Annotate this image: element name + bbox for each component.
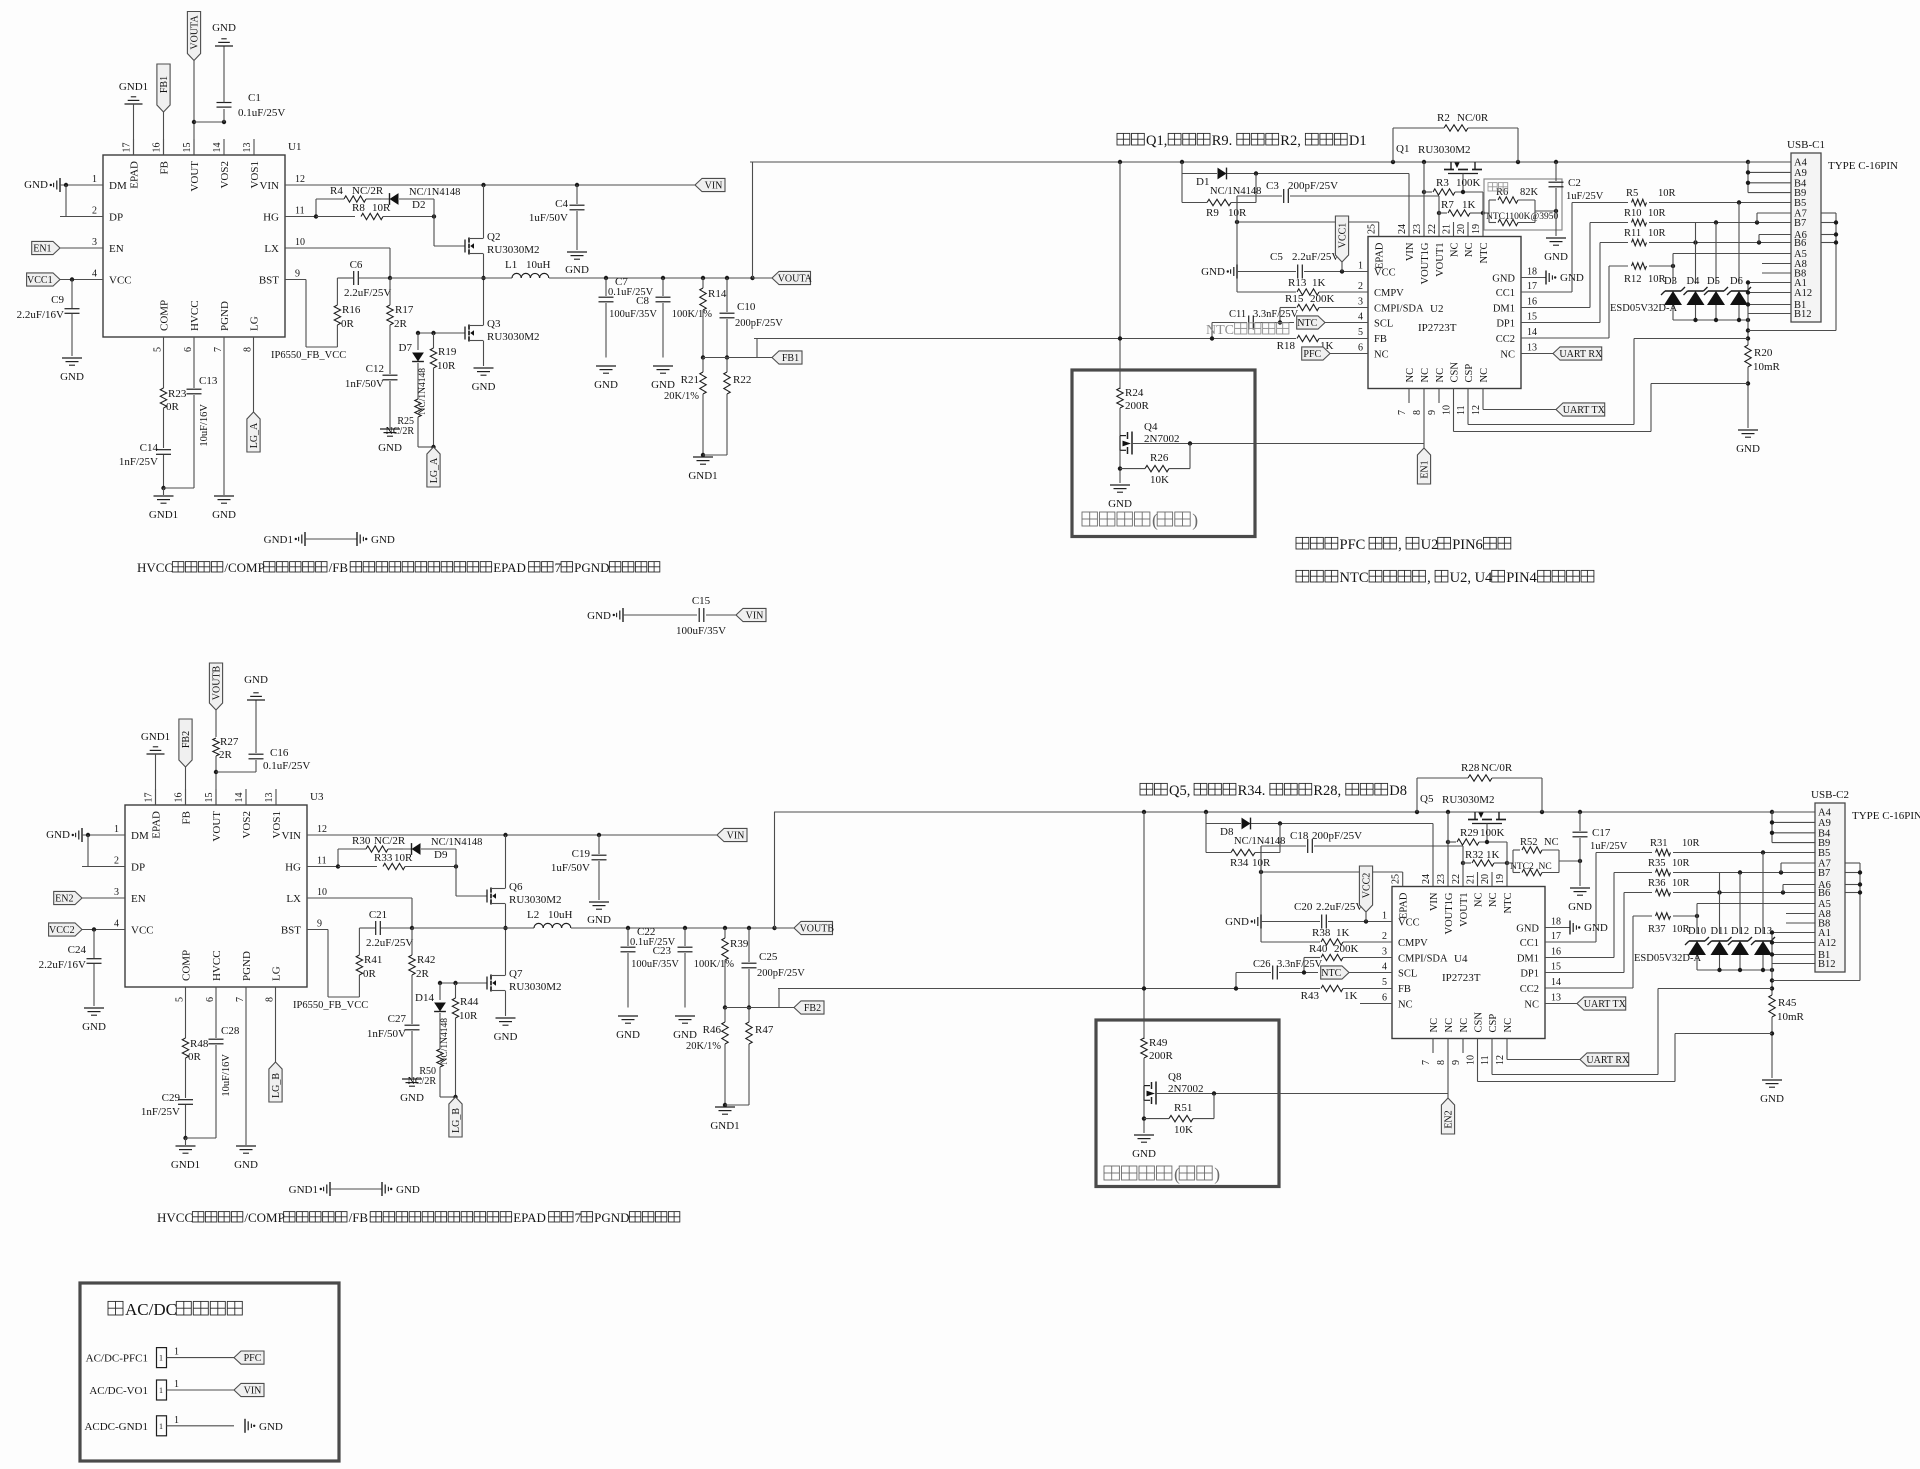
svg-text:C4: C4 [555, 198, 568, 210]
svg-text:U2, U4: U2, U4 [1450, 570, 1493, 586]
svg-text:20K/1%: 20K/1% [686, 1041, 721, 1052]
svg-text:5: 5 [175, 997, 186, 1002]
signal ground [244, 1419, 246, 1433]
svg-text:RU3030M2: RU3030M2 [487, 331, 540, 343]
capacitor C3 [1237, 195, 1282, 197]
svg-text:3: 3 [92, 237, 97, 248]
U1 pin 7 PGND stub [223, 337, 225, 352]
svg-text:2.2uF/25V: 2.2uF/25V [1316, 901, 1363, 913]
svg-text:NC: NC [1435, 368, 1446, 383]
svg-text:C23: C23 [653, 945, 672, 957]
svg-text:LG_A: LG_A [249, 422, 260, 448]
svg-text:GND: GND [396, 1184, 420, 1196]
svg-text:HVCC: HVCC [157, 1210, 193, 1225]
EPAD tie wire [1237, 221, 1379, 223]
svg-text:4: 4 [1358, 312, 1363, 323]
svg-text:R28: R28 [1461, 762, 1480, 774]
VBUS pin group wires [1772, 811, 1815, 813]
svg-text:2.2uF/16V: 2.2uF/16V [17, 309, 64, 321]
resistor R11 [1632, 239, 1647, 245]
svg-text:LX: LX [286, 893, 301, 905]
svg-text:PGND: PGND [241, 951, 253, 981]
svg-text:CSN: CSN [1474, 1012, 1485, 1033]
svg-text:20: 20 [1456, 224, 1467, 234]
capacitor C12 [383, 374, 398, 376]
svg-text:1: 1 [1358, 261, 1363, 272]
thermistor NTC2 NC [1513, 872, 1520, 874]
svg-text:/FB: /FB [329, 560, 349, 575]
svg-text:C28: C28 [221, 1025, 240, 1037]
svg-text:10uF/16V: 10uF/16V [221, 1054, 232, 1097]
svg-text:GND1: GND1 [688, 470, 717, 482]
svg-text:200pF/25V: 200pF/25V [1312, 830, 1362, 842]
svg-text:NC: NC [1479, 368, 1490, 383]
svg-text:D13: D13 [1754, 926, 1772, 937]
svg-text:U2: U2 [1421, 537, 1439, 553]
U1 pin 8 LG stub [253, 337, 255, 352]
svg-text:0R: 0R [166, 401, 180, 413]
svg-text:2.2uF/25V: 2.2uF/25V [1292, 251, 1339, 263]
U2 pin 21 NC stub [1453, 222, 1455, 237]
svg-text:CC2: CC2 [1496, 334, 1515, 345]
resistor R9 [1207, 199, 1231, 205]
svg-text:22: 22 [1427, 224, 1438, 234]
wire BST loop [285, 279, 306, 281]
svg-text:1uF/50V: 1uF/50V [551, 862, 590, 874]
net flag LG_A at pin8 [253, 352, 255, 412]
svg-text:NC/1N4148: NC/1N4148 [1234, 836, 1285, 847]
svg-text:LG: LG [249, 316, 261, 331]
svg-text:C26: C26 [1253, 959, 1271, 970]
svg-text:R7: R7 [1441, 199, 1454, 211]
svg-text:10uH: 10uH [548, 909, 573, 921]
U1 pin 5 COMP stub [163, 337, 165, 352]
U3 pin 3 EN [82, 897, 125, 899]
svg-text:Q7: Q7 [509, 968, 523, 980]
svg-text:2.2uF/16V: 2.2uF/16V [39, 959, 86, 971]
svg-text:1nF/50V: 1nF/50V [367, 1028, 406, 1040]
ground in discharge box [1110, 484, 1130, 486]
wire VIN rail [285, 184, 695, 186]
svg-text:C11: C11 [1229, 309, 1246, 320]
capacitor C27 [405, 1024, 420, 1026]
resistor R48 at COMP [185, 1002, 187, 1038]
capacitor C23 [683, 926, 687, 930]
svg-text:1: 1 [114, 824, 119, 835]
svg-text:13: 13 [1527, 343, 1537, 354]
feedback row FB1 [701, 355, 705, 359]
svg-text:VIN: VIN [746, 611, 764, 622]
svg-text:CMPI/SDA: CMPI/SDA [1398, 954, 1448, 965]
svg-text:C24: C24 [68, 944, 87, 956]
pin22/23/19 columns [1447, 812, 1449, 887]
svg-text:200pF/25V: 200pF/25V [735, 318, 783, 329]
U1 pin 6 HVCC stub [193, 337, 195, 352]
svg-text:22: 22 [1451, 874, 1462, 884]
transistor Q8 discharge [1143, 1086, 1145, 1101]
svg-text:EN: EN [131, 893, 146, 905]
svg-text:C9: C9 [51, 294, 64, 306]
svg-text:R24: R24 [1125, 387, 1144, 399]
svg-text:NTC: NTC [1503, 893, 1514, 914]
capacitor C4 [576, 185, 578, 204]
resistor R25 [415, 399, 421, 417]
svg-text:D2: D2 [412, 199, 425, 211]
U2 pin 7 NC stub [1408, 389, 1410, 404]
note top-right usage [1117, 133, 1130, 145]
resistor R3 [1422, 190, 1426, 194]
svg-text:C8: C8 [636, 295, 649, 307]
svg-text:3: 3 [1358, 297, 1363, 308]
svg-text:VOS2: VOS2 [241, 811, 253, 839]
resistor R15 CMPI [1280, 307, 1296, 309]
capacitor C22 [626, 926, 630, 930]
svg-text:LG_A: LG_A [429, 457, 440, 483]
svg-text:1nF/25V: 1nF/25V [119, 456, 158, 468]
svg-text:C16: C16 [270, 747, 289, 759]
net flag EN1 [1417, 448, 1430, 484]
svg-text:B12: B12 [1818, 959, 1836, 970]
svg-text:EN2: EN2 [1444, 1110, 1455, 1128]
connector USB-C2 TYPE C-16PIN [1815, 803, 1845, 972]
svg-text:C15: C15 [692, 595, 711, 607]
capacitor C21 [359, 927, 375, 929]
ground below Q3 [496, 1017, 516, 1019]
capacitor C16 [216, 771, 256, 773]
svg-text:R23: R23 [168, 388, 187, 400]
svg-text:10R: 10R [372, 202, 391, 214]
resistor R49 [1141, 1038, 1147, 1058]
svg-text:NC/1N4148: NC/1N4148 [440, 1018, 450, 1065]
svg-text:10R: 10R [1658, 188, 1676, 199]
svg-text:B6: B6 [1818, 888, 1830, 899]
svg-text:R21: R21 [681, 374, 699, 386]
IC U3 IP6550 buck controller [125, 805, 307, 987]
svg-text:R47: R47 [755, 1024, 774, 1036]
transistor Q6 high-side [490, 888, 492, 893]
transistor Q7 low-side [490, 975, 492, 980]
capacitor C13 at HVCC [193, 352, 195, 388]
svg-text:200R: 200R [1125, 400, 1150, 412]
U1 pin 16 FB stub [163, 139, 165, 155]
svg-text:NC/0R: NC/0R [1457, 112, 1489, 124]
U2 pin 8 NC stub [1423, 389, 1425, 404]
svg-text:R44: R44 [460, 996, 479, 1008]
svg-text:AC/DC-PFC1: AC/DC-PFC1 [86, 1353, 148, 1365]
svg-text:R22: R22 [733, 374, 751, 386]
svg-text:CMPI/SDA: CMPI/SDA [1374, 304, 1424, 315]
net flag FB2 at pin16 [179, 719, 192, 767]
svg-text:/COMP: /COMP [224, 560, 264, 575]
svg-text:): ) [1192, 510, 1198, 530]
svg-text:11: 11 [295, 206, 305, 217]
svg-text:DP: DP [109, 212, 123, 224]
svg-text:82K: 82K [1520, 187, 1539, 198]
svg-text:13: 13 [264, 793, 275, 803]
ground below C9 [84, 1007, 104, 1009]
U4 pin 12 NC stub [1506, 1039, 1508, 1054]
svg-text:,: , [1398, 537, 1405, 553]
svg-text:GND: GND [378, 442, 402, 454]
U3 pin 16 FB stub [185, 789, 187, 805]
svg-text:10uH: 10uH [526, 259, 551, 271]
svg-text:U3: U3 [310, 791, 324, 803]
svg-text:FB: FB [181, 811, 193, 824]
net flag FB1 at pin16 [157, 64, 170, 112]
ground below C12 [380, 428, 400, 430]
svg-text:C3: C3 [1266, 180, 1279, 192]
svg-text:LG_B: LG_B [271, 1073, 282, 1098]
svg-text:C29: C29 [162, 1092, 181, 1104]
svg-text:11: 11 [317, 856, 327, 867]
wire LX [307, 897, 412, 899]
svg-text:200pF/25V: 200pF/25V [757, 968, 805, 979]
U1 pin 15 VOUT stub [193, 139, 195, 155]
svg-text:10R: 10R [437, 360, 456, 372]
svg-text:D7: D7 [399, 342, 413, 354]
svg-text:Q4: Q4 [1144, 421, 1158, 433]
capacitor C17 [1579, 812, 1581, 831]
svg-text:D5: D5 [1707, 276, 1720, 287]
svg-text:3.3nF/25V: 3.3nF/25V [1253, 309, 1299, 320]
svg-text:12: 12 [1495, 1055, 1506, 1065]
U1 pin 3 EN [60, 247, 103, 249]
vertical VBUS drop to discharge [1119, 162, 1121, 389]
svg-text:2R: 2R [219, 749, 233, 761]
U4 pin 25 EPAD stub [1402, 872, 1404, 887]
VBUS pin group wires [1748, 161, 1791, 163]
svg-text:Q1,: Q1, [1146, 133, 1171, 149]
svg-text:LG_B: LG_B [451, 1108, 462, 1133]
svg-text:VIN: VIN [281, 830, 301, 842]
svg-text:HVCC: HVCC [137, 560, 173, 575]
svg-text:7: 7 [555, 560, 562, 575]
transistor Q4 discharge [1119, 436, 1121, 451]
svg-text:NC/1N4148: NC/1N4148 [1210, 186, 1261, 197]
U3 pin 14 VOS2 stub [245, 789, 247, 805]
svg-text:R30: R30 [352, 835, 371, 847]
ground below C12 [402, 1078, 422, 1080]
net flag LG_B near gate [449, 1097, 462, 1137]
capacitor C14 [156, 449, 171, 451]
svg-text:CMPV: CMPV [1374, 288, 1404, 299]
resistor R6 [1489, 199, 1496, 201]
svg-text:1: 1 [159, 1422, 163, 1431]
svg-text:VOUTA: VOUTA [190, 15, 201, 50]
ground below sense [1738, 429, 1758, 431]
svg-text:NC/2R: NC/2R [386, 426, 415, 437]
capacitor C5 [1237, 271, 1296, 273]
svg-text:R4: R4 [330, 185, 343, 197]
net flag VIN [234, 1383, 264, 1396]
svg-text:C6: C6 [350, 259, 363, 271]
DP1 to B6 column [1521, 322, 1600, 324]
capacitor C11 [1211, 323, 1213, 339]
thermistor NTC1100K@3950 [1489, 222, 1496, 224]
resistor R27 [215, 710, 217, 737]
svg-text:100uF/35V: 100uF/35V [609, 309, 657, 320]
svg-text:GND1: GND1 [264, 534, 293, 546]
capacitor C8 [661, 276, 665, 280]
svg-text:R9: R9 [1206, 207, 1219, 219]
svg-text:UART RX: UART RX [1586, 1055, 1630, 1066]
resistor R5 [1632, 199, 1647, 205]
svg-text:16: 16 [152, 143, 163, 153]
U2 pin 20 NC stub [1467, 222, 1469, 237]
svg-text:VOUTB: VOUTB [212, 665, 223, 700]
svg-text:Q1: Q1 [1396, 143, 1409, 155]
svg-text:9: 9 [1451, 1060, 1462, 1065]
U1 pin 13 VOS1 stub [253, 139, 255, 155]
resistor R4 [315, 199, 317, 217]
svg-text:16: 16 [174, 793, 185, 803]
svg-text:R42: R42 [417, 954, 435, 966]
inductor L1 [390, 277, 512, 279]
svg-text:R29: R29 [1460, 827, 1479, 839]
wire VOUT to VBUS rail [752, 162, 754, 278]
svg-text:9: 9 [317, 919, 322, 930]
IC U2 IP2723T [1368, 237, 1521, 389]
svg-text:2: 2 [114, 856, 119, 867]
capacitor C18 [1261, 845, 1306, 847]
svg-text:8: 8 [265, 997, 276, 1002]
CSP sense loop [1467, 403, 1469, 425]
svg-text:R6: R6 [1496, 187, 1508, 198]
svg-text:GND: GND [244, 674, 268, 686]
svg-text:HVCC: HVCC [211, 950, 223, 981]
svg-text:NTC1100K@3950: NTC1100K@3950 [1486, 212, 1559, 222]
svg-text:R8: R8 [352, 202, 365, 214]
svg-text:GND: GND [494, 1031, 518, 1043]
U1 pin 17 EPAD stub [133, 139, 135, 155]
svg-text:3: 3 [114, 887, 119, 898]
svg-text:IP2723T: IP2723T [1418, 322, 1457, 334]
inductor L2 [412, 927, 534, 929]
note bottom-right usage [1140, 783, 1153, 795]
resistor R12 [1632, 263, 1647, 269]
svg-text:5: 5 [1358, 327, 1363, 338]
resistor R22 [726, 358, 728, 373]
svg-text:R32: R32 [1465, 849, 1483, 861]
wire low-side gate [440, 982, 487, 984]
wire low-side gate [418, 332, 465, 334]
svg-text:12: 12 [317, 824, 327, 835]
ground below Q3 [474, 367, 494, 369]
net flag PFC [1302, 347, 1330, 360]
svg-text:15: 15 [204, 793, 215, 803]
svg-text:C17: C17 [1592, 827, 1611, 839]
svg-text:DM: DM [131, 830, 149, 842]
svg-text:D8: D8 [1220, 826, 1234, 838]
svg-text:RU3030M2: RU3030M2 [1418, 144, 1471, 156]
svg-text:D12: D12 [1731, 926, 1749, 937]
svg-text:10uF/16V: 10uF/16V [199, 404, 210, 447]
svg-text:NTC: NTC [1206, 323, 1234, 338]
svg-text:NTC2 NC: NTC2 NC [1510, 862, 1552, 872]
svg-text:GND: GND [651, 379, 675, 391]
resistor R30 [337, 849, 339, 867]
svg-text:NC: NC [1524, 1000, 1539, 1011]
diode D8 loop [1205, 812, 1207, 853]
svg-text:2: 2 [92, 206, 97, 217]
svg-text:NC: NC [1459, 1018, 1470, 1033]
svg-text:R45: R45 [1778, 997, 1797, 1009]
svg-text:GND: GND [1568, 901, 1592, 913]
svg-text:6: 6 [1358, 343, 1363, 354]
svg-text:/FB: /FB [349, 1210, 369, 1225]
svg-text:R46: R46 [703, 1024, 722, 1036]
svg-text:R26: R26 [1150, 452, 1169, 464]
svg-text:GND: GND [616, 1029, 640, 1041]
diode D9 [388, 848, 411, 850]
U4 pin 20 NC stub [1491, 872, 1493, 887]
svg-text:10R: 10R [1648, 228, 1666, 239]
svg-text:C21: C21 [369, 909, 387, 921]
svg-text:VOS2: VOS2 [219, 161, 231, 189]
GND1 below divider [701, 453, 705, 457]
svg-text:7: 7 [235, 997, 246, 1002]
svg-text:D10: D10 [1688, 926, 1706, 937]
svg-text:PIN6: PIN6 [1452, 537, 1483, 553]
resistor R24 [1117, 388, 1123, 408]
capacitor C25 [747, 926, 751, 930]
svg-text:U2: U2 [1430, 303, 1443, 315]
svg-text:10R: 10R [1648, 208, 1666, 219]
svg-text:BST: BST [259, 275, 279, 287]
svg-text:GND: GND [1225, 916, 1249, 928]
svg-text:24: 24 [1397, 224, 1408, 234]
CC2 to A5 column [1545, 987, 1633, 989]
ESD diode columns [1672, 266, 1674, 284]
DM1 to B7 column [1545, 957, 1614, 959]
svg-text:VOUT1: VOUT1 [1435, 243, 1446, 277]
CC1 to B5 column [1521, 291, 1572, 293]
svg-text:1K: 1K [1462, 199, 1476, 211]
svg-text:HG: HG [263, 212, 279, 224]
A5 jog [1672, 254, 1674, 267]
TVS diode D4 [1688, 290, 1704, 292]
svg-text:VOUT1G: VOUT1G [1420, 242, 1431, 284]
svg-text:2R: 2R [394, 318, 408, 330]
svg-text:B7: B7 [1818, 868, 1830, 879]
U1 pin 4 VCC [60, 279, 103, 281]
svg-text:1: 1 [92, 174, 97, 185]
net flag UART RX [1521, 353, 1553, 355]
svg-text:EN1: EN1 [1420, 460, 1431, 478]
svg-text:GND: GND [1760, 1093, 1784, 1105]
svg-text:GND: GND [587, 610, 611, 622]
transistor Q1 [1450, 162, 1452, 169]
AC/DC interface box (thick) [80, 1283, 339, 1461]
svg-text:3.3nF/25V: 3.3nF/25V [1277, 959, 1323, 970]
net flag VCC1 [27, 273, 60, 286]
svg-text:BST: BST [281, 925, 301, 937]
resistor R52 [1513, 849, 1520, 851]
resistor R47 [748, 1008, 750, 1023]
svg-text:GND1: GND1 [710, 1120, 739, 1132]
svg-text:25: 25 [1367, 224, 1378, 234]
svg-text:GND: GND [371, 534, 395, 546]
svg-text:R2,: R2, [1280, 133, 1304, 149]
svg-text:GND: GND [1492, 274, 1515, 285]
svg-text:6: 6 [205, 997, 216, 1002]
svg-text:FB: FB [159, 161, 171, 174]
U2 pin 10 CSN stub [1453, 389, 1455, 404]
svg-text:R2: R2 [1437, 112, 1450, 124]
ground below C2 [1546, 237, 1566, 239]
net flag VIN [695, 178, 725, 191]
svg-text:17: 17 [144, 793, 155, 803]
